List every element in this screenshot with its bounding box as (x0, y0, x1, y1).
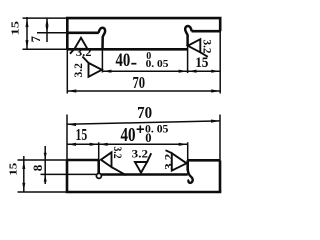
svg-text:70: 70 (133, 73, 146, 92)
svg-text:70: 70 (137, 103, 152, 122)
svg-text:15: 15 (76, 125, 88, 144)
svg-text:7: 7 (29, 36, 43, 42)
svg-text:40: 40 (121, 124, 136, 146)
svg-text:8: 8 (30, 164, 45, 171)
svg-text:15: 15 (9, 20, 21, 35)
svg-text:40: 40 (116, 50, 131, 71)
svg-text:3.2: 3.2 (201, 40, 213, 54)
svg-text:3.2: 3.2 (111, 147, 125, 159)
svg-text:3.2: 3.2 (73, 63, 85, 78)
svg-text:0. 05: 0. 05 (146, 58, 169, 70)
svg-text:3.2: 3.2 (162, 154, 176, 170)
svg-text:3.2: 3.2 (132, 146, 148, 160)
svg-text:3.2: 3.2 (76, 47, 92, 59)
svg-text:15: 15 (9, 163, 20, 176)
svg-text:0: 0 (145, 131, 151, 145)
svg-text:15: 15 (195, 55, 208, 71)
